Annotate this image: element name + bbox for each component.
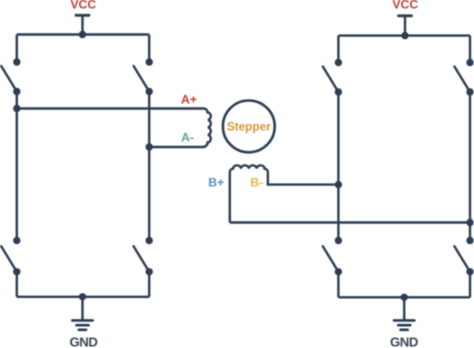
wire: right bridge left branch upper <box>337 36 339 63</box>
inductor: stepper winding B with B+/B- leads <box>230 165 339 222</box>
wire: left bridge top rail <box>17 33 149 35</box>
VCC supply symbol (left bridge) <box>76 15 89 34</box>
node: VCC junction dot (left bridge) <box>79 31 86 38</box>
svg-text:VCC: VCC <box>392 0 418 12</box>
switch S4 (left bridge low-side right) <box>134 237 153 276</box>
svg-text:B+: B+ <box>208 175 224 189</box>
ground symbol (right bridge) <box>394 297 414 330</box>
inductor: stepper winding A with A+/A- leads <box>17 109 211 148</box>
wire: right bridge top rail <box>338 34 470 36</box>
wire: left bridge right branch upper <box>148 35 150 63</box>
switch S6 (right bridge high-side right) <box>454 59 473 96</box>
switch S8 (right bridge low-side right) <box>454 237 473 276</box>
switch S7 (right bridge low-side left) <box>323 237 342 276</box>
svg-text:B-: B- <box>250 175 263 189</box>
wire: S2 bottom to A- node <box>148 92 150 148</box>
svg-text:VCC: VCC <box>70 0 96 12</box>
svg-text:A+: A+ <box>181 92 197 106</box>
svg-text:GND: GND <box>69 334 97 348</box>
node: GND junction dot (right bridge) <box>401 294 408 301</box>
wire: right bridge right branch lower <box>469 272 471 298</box>
wire: right bridge left branch middle (crosses B+ wire, no junction) <box>337 185 339 241</box>
wire: right bridge right branch middle <box>469 223 471 241</box>
wire: right bridge bottom rail <box>338 296 470 298</box>
wire: left bridge left branch middle <box>16 109 18 241</box>
svg-text:GND: GND <box>390 334 418 348</box>
switch S2 (left bridge high-side right) <box>134 58 153 95</box>
switch S1 (left bridge high-side left) <box>1 58 20 95</box>
wire: left bridge left branch upper <box>16 35 18 63</box>
stepper motor body U1 <box>223 101 275 153</box>
node: GND junction dot (left bridge) <box>79 293 86 300</box>
wire: right bridge right branch upper <box>469 36 471 63</box>
ground symbol (left bridge) <box>72 297 92 330</box>
wire: right bridge left branch lower <box>337 272 339 298</box>
svg-text:Stepper: Stepper <box>227 119 271 133</box>
wire: left bridge bottom rail <box>17 296 149 298</box>
wire: left bridge left branch lower <box>16 272 18 297</box>
wire: B+ bottom lead to right branch <box>230 221 470 223</box>
wire: S6 bottom to B+ node <box>469 92 471 223</box>
wire: left bridge right branch lower <box>148 272 150 297</box>
node: VCC junction dot (right bridge) <box>401 32 408 39</box>
node: B- junction dot <box>335 181 342 188</box>
switch S3 (left bridge low-side left) <box>1 237 20 276</box>
switch S5 (right bridge high-side left) <box>323 59 342 96</box>
node: B+ junction dot <box>466 219 473 226</box>
VCC supply symbol (right bridge) <box>399 16 412 36</box>
wire: S5 bottom to B- node <box>337 92 339 185</box>
node: A- junction dot <box>146 143 153 150</box>
wire: left bridge right branch middle <box>148 147 150 241</box>
svg-text:A-: A- <box>181 131 194 145</box>
node: A+ junction dot <box>13 105 20 112</box>
wire: S1 bottom to A+ node <box>16 92 18 109</box>
